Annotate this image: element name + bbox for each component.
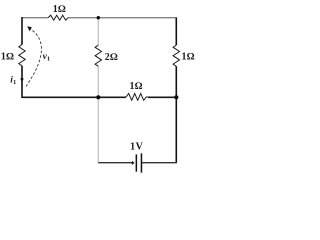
svg-text:1Ω: 1Ω [1, 52, 14, 63]
svg-text:1Ω: 1Ω [182, 52, 195, 63]
svg-text:1V: 1V [130, 142, 144, 153]
svg-text:1Ω: 1Ω [130, 81, 143, 92]
svg-text:2Ω: 2Ω [105, 52, 118, 63]
svg-text:1Ω: 1Ω [53, 4, 66, 15]
